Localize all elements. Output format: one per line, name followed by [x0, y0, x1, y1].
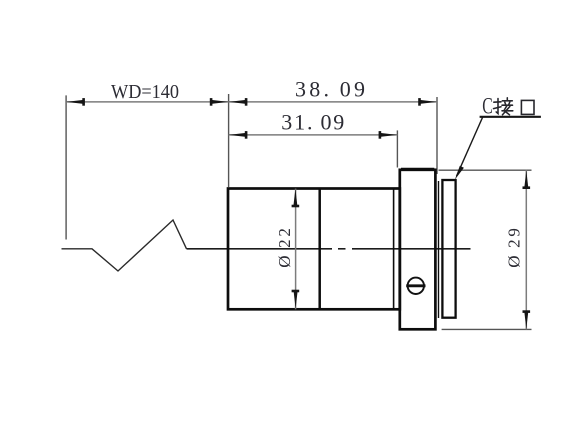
- center line long dash through flange and ring: [352, 248, 471, 250]
- leader underline under C label: [480, 116, 541, 118]
- flange top edge double line: [401, 167, 434, 169]
- dimension line 31.09: [229, 134, 398, 136]
- arrow left of WD dimension: [66, 100, 85, 104]
- leader line for C-mount label: [457, 117, 483, 176]
- arrow right of 31.09 dimension: [379, 133, 398, 137]
- extension line bottom for dia29: [442, 328, 532, 330]
- C-mount ring outline: [442, 180, 455, 318]
- dimension line for diameter 29: [525, 170, 527, 330]
- glyph kou (Chinese 'interface' char 2) drawn box: [521, 100, 534, 114]
- arrow top of dia29: [524, 170, 528, 189]
- dimension line 38.09: [229, 101, 437, 103]
- extension line for 38.09 at x=437: [436, 97, 438, 174]
- extension line at barrel front x=228.6: [228, 94, 230, 187]
- screw head circle on flange: [408, 278, 424, 294]
- screw slot line: [406, 284, 425, 287]
- leader arrow head: [455, 166, 464, 180]
- arrow bottom of dia22: [294, 290, 298, 309]
- dimension line WD=140: [66, 101, 229, 103]
- svg-text:Ø: Ø: [505, 255, 524, 267]
- extension line left (object plane) for WD=140: [65, 95, 67, 239]
- arrow right of 38.09 dimension: [419, 100, 438, 104]
- extension line top for dia29: [439, 169, 532, 171]
- arrow top of dia22: [293, 189, 297, 208]
- flange outline: [400, 170, 436, 329]
- svg-text:Ø: Ø: [275, 255, 294, 267]
- barrel divider line 2 (thin, near flange): [393, 189, 395, 310]
- svg-text:WD=140: WD=140: [111, 81, 179, 103]
- arrow right of WD dimension: [210, 100, 229, 104]
- center line long dash through barrel: [187, 248, 333, 250]
- center line short dash: [338, 248, 346, 250]
- axis / break line zigzag on the left: [62, 220, 187, 271]
- barrel body outline: [228, 189, 400, 310]
- thin ring line behind C-mount ring: [438, 181, 440, 318]
- dimension line for diameter 22: [295, 189, 297, 310]
- svg-text:C: C: [482, 94, 493, 119]
- arrow left of 31.09 dimension: [229, 133, 248, 137]
- extension line for 31.09 at x=397.4: [396, 130, 398, 167]
- arrow bottom of dia29: [524, 311, 528, 330]
- arrow left of 38.09 dimension: [229, 100, 248, 104]
- barrel divider line 1: [318, 189, 321, 310]
- glyph jie (Chinese 'interface' char 1) drawn strokes: [494, 98, 513, 115]
